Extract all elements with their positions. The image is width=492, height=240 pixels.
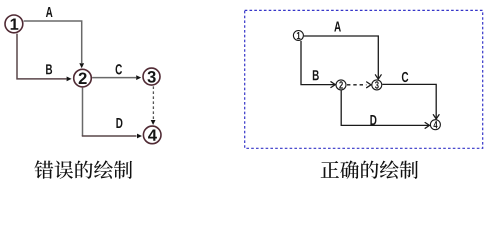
caption 正确的绘制: [321, 160, 418, 178]
caption 错误的绘制: [34, 160, 132, 178]
dashed dummy wire node3 to node4: [152, 86, 154, 119]
wire D: node2 down then right to node4: [82, 88, 84, 136]
arrowhead A2 into node3: [375, 75, 381, 79]
blue dashed frame: [245, 10, 483, 148]
wire C: node2 to node3: [92, 77, 136, 79]
activity label A: [46, 7, 53, 17]
dashed dummy wire node2 to node3: [347, 84, 366, 86]
arrowhead dummy2 into node3: [367, 82, 371, 88]
wire B2: node1 down then right to node2: [301, 41, 335, 85]
node 2: [74, 69, 92, 87]
arrowhead C2 into node4: [433, 115, 439, 119]
activity label D: [116, 118, 122, 128]
node 3: [143, 68, 160, 85]
activity label C2: [402, 72, 408, 82]
wire D2: node2 down then right to node4: [341, 90, 429, 125]
activity label A2: [334, 22, 341, 32]
node 2 circled: [336, 80, 346, 90]
arrowhead dummy into node4: [151, 120, 156, 125]
wire C2: node3 right then down to node4: [382, 84, 436, 118]
node 3 circled: [372, 80, 382, 90]
arrowhead C into node3: [136, 75, 141, 80]
activity label B: [46, 64, 52, 74]
arrowhead A into node2: [79, 63, 84, 68]
node 4 circled: [430, 120, 440, 130]
arrowhead D into node4: [137, 134, 142, 139]
activity label C: [116, 64, 122, 74]
arrowhead B into node2: [67, 77, 72, 82]
node 1 circled: [293, 31, 303, 41]
arrowhead B2 into node2: [331, 82, 335, 88]
activity label B2: [313, 70, 319, 80]
wire A2: node1 right then down to node3: [304, 36, 378, 79]
wire A: node1 right then down to node2: [24, 21, 82, 63]
node 4: [143, 126, 161, 144]
node 1: [5, 15, 23, 33]
wire B: node1 down then right to node2: [17, 34, 67, 79]
activity label D2: [370, 115, 376, 125]
arrowhead D2 into node4: [425, 123, 429, 129]
